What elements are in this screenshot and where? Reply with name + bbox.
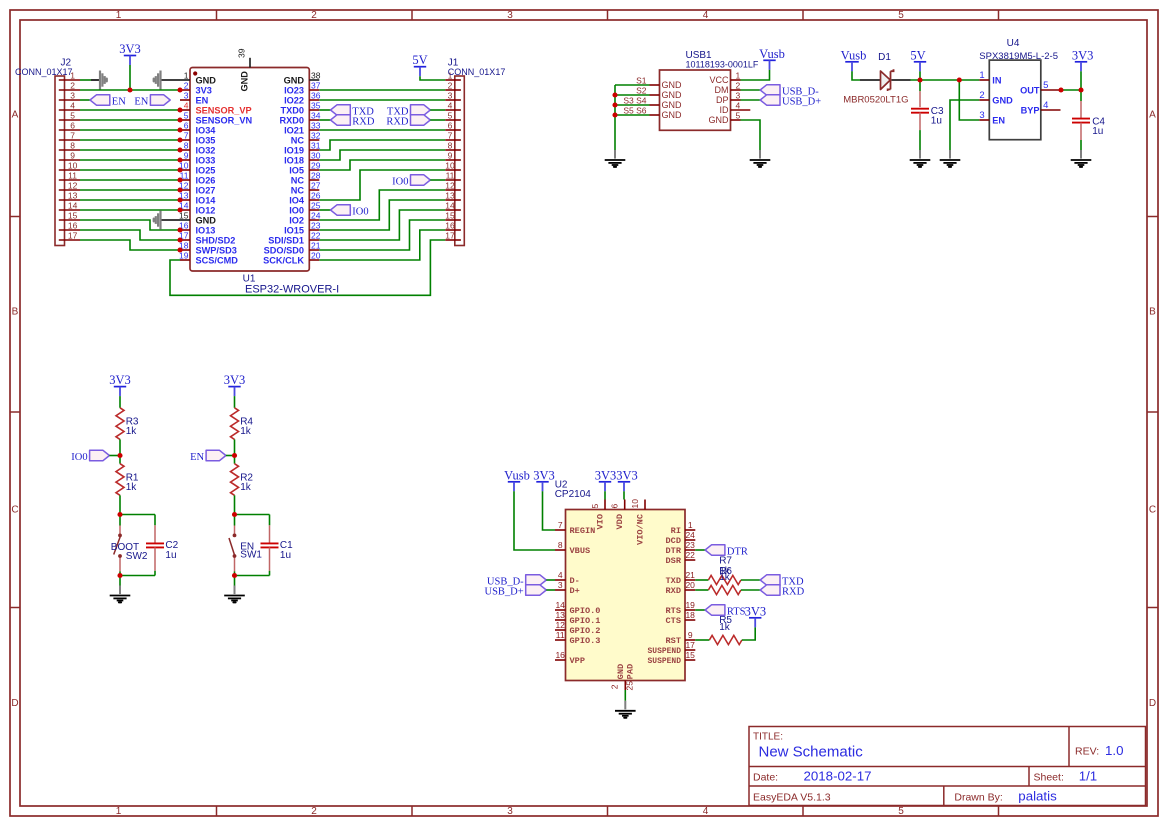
U2 pin 23 DTR (666, 540, 696, 556)
svg-text:GND: GND (662, 90, 683, 100)
ground below C3 (910, 150, 931, 167)
wire 5V to J1.1 (420, 76, 445, 80)
svg-text:4: 4 (1043, 100, 1048, 111)
svg-text:5V: 5V (910, 48, 925, 62)
wire C4 to ground (1080, 140, 1082, 150)
svg-text:IO4: IO4 (289, 196, 305, 206)
wire U1.21 step to J1.15 (319, 220, 445, 250)
switch SW2 top pin (119, 515, 121, 526)
svg-text:9: 9 (184, 151, 189, 161)
svg-text:3: 3 (70, 91, 75, 101)
svg-text:15: 15 (68, 211, 78, 221)
U1 pin 22 SDI/SD1 (268, 231, 320, 246)
svg-text:DM: DM (715, 85, 729, 95)
resistor R2 (231, 464, 239, 496)
svg-text:1k: 1k (126, 482, 138, 493)
svg-text:IN: IN (992, 76, 1002, 86)
svg-text:1: 1 (688, 520, 693, 530)
svg-text:DSR: DSR (666, 556, 682, 566)
svg-text:2: 2 (311, 806, 317, 817)
wire J2.13 to U1.13 (80, 199, 180, 201)
svg-text:D1: D1 (878, 52, 891, 63)
svg-text:5: 5 (70, 111, 75, 121)
resistor R1 (116, 464, 124, 496)
U1 pin 16 IO13 (179, 221, 215, 236)
svg-text:6: 6 (184, 121, 189, 131)
svg-text:5: 5 (1043, 80, 1048, 91)
net port EN (right) (150, 95, 170, 106)
wire U1.33 to J1.6 (319, 129, 445, 131)
svg-text:ESP32-WROVER-I: ESP32-WROVER-I (245, 284, 339, 296)
svg-text:7: 7 (70, 131, 75, 141)
svg-text:1k: 1k (240, 426, 252, 437)
U4 pin 3 EN (979, 110, 1005, 125)
svg-text:NC: NC (291, 186, 305, 196)
svg-text:10118193-0001LF: 10118193-0001LF (686, 60, 759, 70)
svg-text:4: 4 (703, 806, 709, 817)
net port IO0 (at U1) (331, 205, 351, 216)
svg-text:6: 6 (70, 121, 75, 131)
wire J2.7 to U1.7 (80, 139, 180, 141)
svg-text:SWP/SD3: SWP/SD3 (196, 246, 237, 256)
power 3V3 at VDD (616, 468, 638, 491)
svg-text:USB_D+: USB_D+ (485, 587, 524, 598)
wire J2.14 to U1.14 (80, 209, 180, 211)
svg-text:IO21: IO21 (284, 126, 304, 136)
junction dot U1 pin 9 (177, 157, 182, 162)
svg-text:IO32: IO32 (196, 146, 216, 156)
U1 pin 28 NC (291, 171, 321, 186)
wire branch cap bottom (235, 575, 270, 577)
svg-text:16: 16 (555, 650, 565, 660)
svg-text:SUSPEND: SUSPEND (648, 646, 682, 656)
U2 pin 15 SUSPEND (648, 650, 696, 666)
svg-text:D: D (11, 698, 18, 709)
connector J2 CONN_01X17 (55, 71, 80, 246)
svg-text:NC: NC (291, 176, 305, 186)
capacitor C1 top lead (269, 515, 271, 526)
svg-text:1u: 1u (1092, 126, 1103, 137)
title block outline (749, 727, 1146, 806)
junction dot U1 pin 7 (177, 137, 182, 142)
wire U1.29 step to J1.9 (319, 160, 445, 170)
svg-text:DP: DP (716, 95, 729, 105)
svg-text:IO0: IO0 (352, 207, 368, 218)
svg-text:SENSOR_VP: SENSOR_VP (196, 106, 252, 116)
svg-text:3: 3 (736, 91, 741, 101)
junction dot U1 pin 13 (177, 197, 182, 202)
wire U4 GND to ground (950, 100, 979, 150)
svg-text:IO33: IO33 (196, 156, 216, 166)
svg-text:36: 36 (311, 91, 321, 101)
U2 pin 8 VBUS (555, 540, 590, 556)
wire J2.8 to U1.8 (80, 149, 180, 151)
svg-text:27: 27 (311, 181, 321, 191)
switch SW1 arm (229, 538, 235, 556)
wire J2.10 to U1.10 (80, 169, 180, 171)
U1 pin 37 IO23 (284, 81, 321, 96)
svg-text:REV:: REV: (1075, 746, 1099, 758)
svg-text:CTS: CTS (666, 616, 681, 626)
USB1 shield pin S3 S4 GND (623, 96, 682, 111)
net port USB_D- (USB1) (760, 85, 780, 96)
wire U1.24 step to J1.12 (319, 190, 445, 220)
wire 3V3 to VDD (623, 491, 625, 499)
U1 pin 19 SCS/CMD (179, 251, 238, 266)
wire DTR pin to port (695, 549, 705, 551)
USB1 pin 3 DP (716, 91, 741, 106)
svg-text:3: 3 (979, 110, 984, 121)
svg-text:3V3: 3V3 (595, 468, 617, 482)
svg-text:31: 31 (311, 141, 321, 151)
USB1 shield pin S2 GND (636, 86, 682, 101)
junction dot U1 pin18 (177, 247, 182, 252)
wire U1.37 to J1.2 (319, 89, 445, 91)
wire D1 to U4 IN (911, 79, 980, 81)
wire 3V3 to VIO (604, 491, 606, 499)
svg-text:SPX3819M5-L-2-5: SPX3819M5-L-2-5 (979, 51, 1058, 62)
svg-text:3V3: 3V3 (616, 468, 638, 482)
U2 pin 7 REGIN (555, 520, 595, 536)
svg-text:IO26: IO26 (196, 176, 216, 186)
U2 pin 25 PAD bottom (624, 664, 635, 691)
svg-text:7: 7 (184, 131, 189, 141)
switch SW2 arm (114, 537, 121, 555)
svg-text:8: 8 (558, 540, 563, 550)
svg-text:3V3: 3V3 (745, 604, 767, 618)
svg-text:22: 22 (685, 550, 695, 560)
svg-text:VDD: VDD (615, 514, 625, 529)
svg-text:5: 5 (184, 111, 189, 121)
U1 pin 31 IO19 (284, 141, 321, 156)
wire USB_D+ to D+ (546, 589, 555, 591)
svg-text:GPIO.2: GPIO.2 (570, 626, 601, 636)
svg-text:IO25: IO25 (196, 166, 216, 176)
U1 pin 24 IO2 (289, 211, 321, 226)
capacitor C4 top lead (1080, 90, 1082, 101)
svg-text:39: 39 (237, 48, 247, 58)
U1 pin 13 IO14 (179, 191, 216, 206)
svg-text:1.0: 1.0 (1105, 743, 1124, 758)
svg-text:VIO: VIO (596, 514, 606, 529)
USB1 shield pin S1 GND (636, 76, 682, 91)
power 5V (J1) (412, 53, 427, 76)
wire J2.5 to U1.5 (80, 119, 180, 121)
U1 pin 35 TXD0 (281, 101, 321, 116)
svg-text:RXD: RXD (352, 117, 375, 128)
U2 pin 6 VDD (610, 500, 626, 530)
frame column ticks bottom (216, 806, 218, 816)
svg-text:11: 11 (556, 630, 565, 640)
power 3V3 at RST (745, 604, 767, 627)
wire U1.35 to TXD port (319, 109, 330, 111)
svg-text:1/1: 1/1 (1079, 769, 1098, 784)
wire J2.12 to U1.12 (80, 189, 180, 191)
U2 pin 10 VIO/NC (630, 499, 646, 545)
frame row ticks right (1147, 216, 1158, 218)
svg-text:23: 23 (685, 540, 695, 550)
ground at U1 pin1 (154, 71, 161, 90)
junction dot U1 pin 5 (177, 117, 182, 122)
net port RXD at U2 (760, 585, 780, 596)
wire USB1 GND pin to ground (741, 120, 761, 150)
svg-text:30: 30 (311, 151, 321, 161)
svg-text:2: 2 (184, 81, 189, 91)
U1 pin 26 IO4 (289, 191, 321, 206)
svg-text:2: 2 (448, 81, 453, 91)
wire branch to cap top (235, 514, 270, 516)
wire J2.15 step to U1.16 (80, 220, 180, 230)
ground at U1 pin15 (154, 211, 161, 230)
wire U1.34 to RXD port (319, 119, 330, 121)
junction dot cap node bottom (117, 573, 122, 578)
svg-text:GND: GND (196, 76, 217, 86)
ground below SW1 (224, 586, 245, 603)
svg-text:3V3: 3V3 (109, 373, 131, 387)
USB1 pin 1 VCC (709, 71, 740, 86)
svg-text:GND: GND (709, 115, 730, 125)
svg-text:IO22: IO22 (284, 96, 304, 106)
svg-text:SCS/CMD: SCS/CMD (196, 256, 239, 266)
svg-text:D: D (1149, 698, 1156, 709)
wire U1.36 to J1.3 (319, 99, 445, 101)
svg-text:10: 10 (68, 161, 78, 171)
U2 pin 22 DSR (666, 550, 696, 566)
wire VCC to Vusb (741, 70, 770, 80)
net port TXD at U2 (760, 575, 780, 586)
junction dot (118, 554, 122, 558)
svg-text:1k: 1k (126, 426, 138, 437)
wire TXD port to J1.4 (430, 109, 445, 111)
resistor R4 (231, 408, 239, 440)
wire RXD port to J1.5 (430, 119, 445, 121)
svg-text:6: 6 (610, 504, 620, 509)
svg-text:IO14: IO14 (196, 196, 217, 206)
svg-text:Vusb: Vusb (759, 47, 785, 61)
U1 pin 20 SCK/CLK (263, 251, 321, 266)
U1 pin 9 IO33 (180, 151, 215, 166)
switch SW2 bottom pin (119, 557, 121, 572)
title block row divider 2 (749, 785, 1146, 787)
title block DrawnBy divider (943, 786, 945, 806)
svg-text:GND: GND (662, 100, 683, 110)
switch SW1 bottom pin (234, 557, 236, 572)
U1 pin 2 3V3 (180, 81, 212, 96)
svg-text:GPIO.3: GPIO.3 (570, 636, 601, 646)
svg-text:RTS: RTS (666, 606, 681, 616)
svg-text:18: 18 (685, 610, 695, 620)
U2 pin 9 RST (666, 630, 696, 646)
svg-text:GND: GND (616, 664, 626, 679)
svg-text:5: 5 (736, 111, 741, 121)
svg-text:Sheet:: Sheet: (1034, 772, 1064, 784)
junction dot EN tie (957, 77, 962, 82)
svg-text:28: 28 (311, 171, 321, 181)
wire to ground (119, 576, 121, 586)
svg-text:IO13: IO13 (196, 226, 216, 236)
svg-text:palatis: palatis (1018, 789, 1057, 804)
power Vusb at USB1 (759, 47, 785, 70)
U2 pin 14 GPIO.0 (555, 600, 600, 616)
svg-text:21: 21 (685, 570, 695, 580)
U1 pin 29 IO5 (289, 161, 321, 176)
U2 pin 3 D+ (555, 580, 580, 596)
svg-text:GND: GND (240, 71, 250, 92)
svg-text:1u: 1u (931, 115, 942, 126)
svg-text:15: 15 (685, 650, 695, 660)
svg-text:RI: RI (671, 526, 681, 536)
svg-text:1k: 1k (719, 572, 731, 583)
net port RXD (at J1) (411, 115, 431, 126)
wire USB_D- to D- (546, 579, 555, 581)
svg-text:1k: 1k (240, 482, 252, 493)
svg-text:SUSPEND: SUSPEND (648, 656, 682, 666)
wire J2.4 to U1.4 (80, 109, 180, 111)
U1 pin 36 IO22 (284, 91, 321, 106)
junction dot cap node top (232, 512, 237, 517)
U1 pin 21 SDO/SD0 (264, 241, 321, 256)
svg-text:C: C (11, 505, 18, 516)
svg-text:IO15: IO15 (284, 226, 304, 236)
svg-text:21: 21 (311, 241, 321, 251)
U1 pin 12 IO27 (179, 181, 215, 196)
svg-text:EN: EN (196, 96, 209, 106)
U4 pin 2 GND (979, 90, 1013, 105)
svg-text:RXD0: RXD0 (279, 116, 304, 126)
svg-text:IO18: IO18 (284, 156, 304, 166)
svg-text:GND: GND (196, 216, 217, 226)
U2 pin 17 SUSPEND (648, 640, 696, 656)
svg-text:4: 4 (736, 101, 741, 111)
svg-text:B: B (1149, 307, 1156, 318)
svg-text:38: 38 (311, 71, 321, 81)
capacitor C3 (911, 108, 929, 110)
wire DP to USB_D+ port (741, 99, 761, 101)
svg-text:37: 37 (311, 81, 321, 91)
svg-text:13: 13 (68, 191, 78, 201)
svg-text:9: 9 (70, 151, 75, 161)
svg-text:7: 7 (558, 520, 563, 530)
svg-text:EN: EN (190, 452, 204, 463)
power 3V3 at VIO (595, 468, 617, 491)
svg-text:14: 14 (555, 600, 565, 610)
svg-text:3V3: 3V3 (196, 86, 212, 96)
svg-text:3: 3 (507, 806, 513, 817)
svg-text:32: 32 (311, 131, 321, 141)
IC U2 CP2104 body (566, 510, 686, 681)
svg-text:CP2104: CP2104 (555, 489, 592, 500)
svg-text:SDO/SD0: SDO/SD0 (264, 246, 304, 256)
svg-text:35: 35 (311, 101, 321, 111)
junction dot 5V node (917, 77, 922, 82)
ground below C4 (1071, 150, 1092, 167)
IC U4 SPX3819M5-L-2-5 body (989, 60, 1041, 140)
svg-text:VIO/NC: VIO/NC (636, 514, 646, 545)
svg-text:IO23: IO23 (284, 86, 304, 96)
U2 pin 5 VIO (590, 500, 606, 530)
svg-text:NC: NC (291, 136, 305, 146)
svg-text:3: 3 (448, 91, 453, 101)
junction dot shield bus (612, 92, 617, 97)
junction dot U1 pin16 (177, 227, 182, 232)
power Vusb at D1 (841, 48, 867, 71)
svg-text:4: 4 (70, 101, 75, 111)
U1 pin 27 NC (291, 181, 321, 196)
svg-text:20: 20 (311, 251, 321, 261)
title block row divider 1 (749, 766, 1146, 768)
svg-text:13: 13 (555, 610, 565, 620)
junction dot U1 pin 10 (177, 167, 182, 172)
svg-text:3V3: 3V3 (533, 468, 555, 482)
resistor R5 (709, 635, 742, 644)
svg-text:USB_D+: USB_D+ (782, 97, 821, 108)
U1 pin 34 RXD0 (279, 111, 320, 126)
net port DTR (705, 545, 725, 556)
wire 3V3 to R4 (234, 396, 236, 408)
net port RXD (at U1) (331, 115, 351, 126)
svg-text:VBUS: VBUS (570, 546, 591, 556)
svg-text:5: 5 (898, 10, 904, 21)
svg-text:R7: R7 (719, 555, 732, 566)
svg-text:B: B (12, 307, 19, 318)
svg-text:Drawn By:: Drawn By: (954, 791, 1002, 803)
U1 pin 39 GND top (237, 48, 250, 91)
power 3V3 at REGIN (533, 468, 555, 491)
resistor R6 (708, 585, 741, 594)
junction dot U1 pin 4 (177, 107, 182, 112)
frame column ticks top (216, 10, 218, 20)
wire R2 to cap node (234, 495, 236, 514)
net port IO0 (at J1) (411, 175, 431, 186)
wire U1.22 step to J1.14 (319, 210, 445, 240)
svg-text:CONN_01X17: CONN_01X17 (15, 67, 73, 77)
svg-text:1k: 1k (719, 622, 731, 633)
svg-text:1u: 1u (165, 550, 176, 561)
title block REV divider (1068, 727, 1070, 767)
net port IO0 (pullup) (90, 450, 110, 461)
svg-text:3V3: 3V3 (119, 42, 141, 56)
svg-text:8: 8 (448, 141, 453, 151)
U1 pin 23 IO15 (284, 221, 321, 236)
capacitor C4 bottom lead (1080, 123, 1082, 140)
U1 pin-1 marker dot (193, 71, 197, 75)
junction dot 3V3/C4 node (1078, 87, 1083, 92)
svg-text:SW1: SW1 (240, 550, 262, 561)
switch SW2 contacts (118, 534, 122, 538)
svg-text:GND: GND (992, 96, 1013, 106)
U1 pin 3 EN (180, 91, 209, 106)
svg-text:3: 3 (558, 580, 563, 590)
wire 5V node down (919, 71, 921, 91)
wire R4 to node (234, 439, 236, 455)
capacitor C3 top lead (919, 91, 921, 107)
svg-text:TXD0: TXD0 (281, 106, 305, 116)
wire Vusb to VBUS (514, 491, 555, 550)
svg-text:1: 1 (736, 71, 741, 81)
net port EN (left) (90, 95, 110, 106)
svg-text:GND: GND (662, 80, 683, 90)
ground below U2 (615, 701, 636, 718)
net port USB_D- at U2 (526, 575, 547, 586)
wire Vusb to D1 (852, 71, 860, 80)
svg-text:4: 4 (184, 101, 189, 111)
svg-text:IO19: IO19 (284, 146, 304, 156)
svg-text:22: 22 (311, 231, 321, 241)
svg-text:2: 2 (736, 81, 741, 91)
capacitor C4 (1072, 118, 1090, 120)
U1 pin 11 IO26 (180, 171, 216, 186)
svg-text:2: 2 (311, 10, 317, 21)
